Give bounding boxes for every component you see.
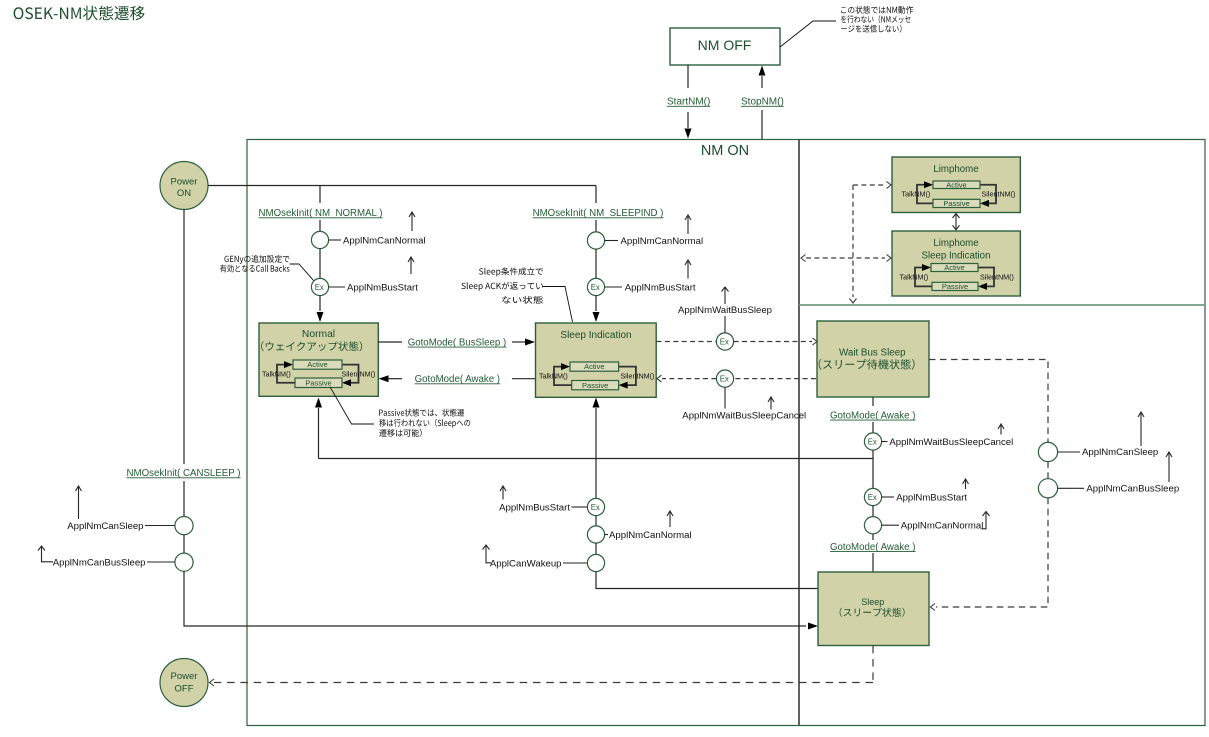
svg-text:Sleep: Sleep [861, 597, 884, 607]
svg-text:SilentNM(): SilentNM() [982, 190, 1016, 199]
svg-text:ApplCanWakeup: ApplCanWakeup [490, 558, 562, 569]
svg-text:ApplNmCanNormal: ApplNmCanNormal [609, 530, 692, 541]
svg-text:ApplNmBusStart: ApplNmBusStart [347, 282, 418, 293]
svg-text:ApplNmCanBusSleep: ApplNmCanBusSleep [1086, 484, 1179, 495]
svg-text:SilentNM(): SilentNM() [342, 369, 376, 378]
svg-text:Ex: Ex [591, 283, 600, 292]
svg-text:Sleep Indication: Sleep Indication [560, 330, 631, 341]
svg-text:OFF: OFF [175, 684, 194, 695]
svg-text:Passive: Passive [305, 378, 331, 387]
svg-text:Ex: Ex [315, 283, 324, 292]
svg-text:Active: Active [584, 362, 604, 371]
svg-text:Active: Active [307, 360, 327, 369]
svg-text:ApplNmBusStart: ApplNmBusStart [499, 502, 570, 513]
svg-text:ApplNmWaitBusSleep: ApplNmWaitBusSleep [678, 305, 772, 316]
svg-text:ApplNmCanNormal: ApplNmCanNormal [343, 235, 426, 246]
svg-text:Ex: Ex [868, 493, 877, 502]
svg-text:ApplNmWaitBusSleepCancel: ApplNmWaitBusSleepCancel [682, 410, 806, 421]
svg-text:Wait Bus Sleep: Wait Bus Sleep [839, 348, 906, 359]
svg-text:Ex: Ex [720, 337, 729, 346]
svg-text:ApplNmCanSleep: ApplNmCanSleep [1082, 447, 1158, 458]
svg-text:ApplNmCanNormal: ApplNmCanNormal [901, 521, 984, 532]
svg-text:ApplNmWaitBusSleepCancel: ApplNmWaitBusSleepCancel [889, 437, 1013, 448]
svg-text:StartNM(): StartNM() [667, 97, 710, 108]
svg-text:Normal: Normal [302, 329, 335, 340]
svg-text:TalkNM(): TalkNM() [539, 371, 568, 380]
svg-text:Limphome: Limphome [933, 238, 978, 249]
svg-text:NM OFF: NM OFF [698, 37, 752, 53]
svg-text:Active: Active [946, 180, 966, 189]
svg-text:StopNM(): StopNM() [741, 97, 784, 108]
svg-text:TalkNM(): TalkNM() [900, 273, 929, 282]
svg-text:SilentNM(): SilentNM() [621, 371, 655, 380]
svg-text:Limphome: Limphome [933, 164, 978, 175]
svg-text:ApplNmCanBusSleep: ApplNmCanBusSleep [53, 557, 146, 568]
svg-text:TalkNM(): TalkNM() [902, 190, 931, 199]
svg-text:Power: Power [171, 671, 198, 682]
svg-text:Passive: Passive [582, 381, 608, 390]
svg-text:Ex: Ex [720, 375, 729, 384]
svg-text:SilentNM(): SilentNM() [980, 273, 1014, 282]
svg-text:ON: ON [177, 188, 191, 199]
svg-text:ApplNmBusStart: ApplNmBusStart [896, 492, 967, 503]
svg-text:Active: Active [944, 263, 964, 272]
svg-text:TalkNM(): TalkNM() [262, 369, 291, 378]
svg-text:Passive: Passive [942, 282, 968, 291]
svg-text:ApplNmBusStart: ApplNmBusStart [625, 282, 696, 293]
svg-text:ApplNmCanSleep: ApplNmCanSleep [67, 521, 143, 532]
svg-text:Power: Power [171, 176, 198, 187]
svg-text:Ex: Ex [868, 437, 877, 446]
svg-text:NM ON: NM ON [701, 143, 749, 159]
svg-text:Passive: Passive [943, 199, 969, 208]
svg-text:ApplNmCanNormal: ApplNmCanNormal [621, 236, 704, 247]
svg-text:Ex: Ex [591, 503, 600, 512]
svg-text:Sleep Indication: Sleep Indication [922, 250, 991, 261]
